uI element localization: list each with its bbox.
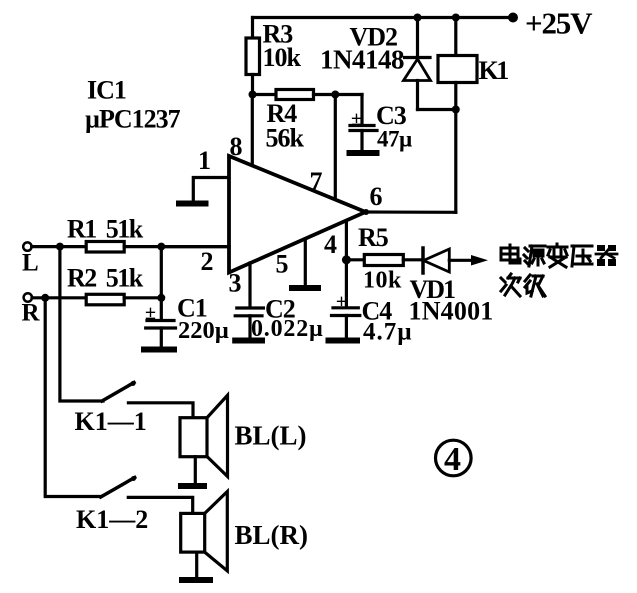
wire VD2 bottom to K1 bottom [418, 108, 456, 111]
svg-text:5: 5 [276, 250, 289, 279]
svg-text:R: R [22, 300, 41, 327]
capacitor C3 [350, 95, 377, 152]
input terminal L [23, 242, 31, 250]
svg-text:IC1: IC1 [87, 76, 126, 105]
ground BL(R) [182, 577, 210, 583]
wire top +25V rail [253, 16, 515, 19]
diode VD1 [423, 248, 478, 273]
node L feed tap [56, 243, 64, 251]
svg-text:R1 51k: R1 51k [67, 215, 144, 244]
switch K1-1 arm [102, 383, 134, 402]
svg-text:±: ± [145, 302, 156, 324]
svg-text:47µ: 47µ [377, 127, 412, 152]
wire pin 5 [304, 239, 307, 285]
svg-text:L: L [22, 250, 39, 277]
svg-text:BL(R): BL(R) [235, 520, 309, 550]
svg-text:µPC1237: µPC1237 [85, 105, 181, 134]
svg-text:BL(L): BL(L) [235, 421, 307, 451]
wire pin 2 [161, 245, 229, 248]
ground C3 [350, 150, 377, 156]
ground BL(L) [181, 483, 204, 489]
wire R feed down [45, 298, 100, 497]
svg-text:1N4001: 1N4001 [409, 297, 494, 326]
resistor R1 [86, 242, 229, 253]
label transformer chinese line2 char ci [501, 274, 520, 296]
capacitor C1 [146, 298, 176, 347]
ground C1 [144, 347, 174, 353]
svg-text:56k: 56k [266, 124, 305, 153]
svg-text:220µ: 220µ [178, 317, 229, 344]
ground C2 [235, 338, 262, 344]
label transformer chinese line1 char yuan [524, 246, 545, 266]
svg-text:10k: 10k [363, 268, 402, 294]
wire R1 node to R2 node [160, 247, 163, 298]
resistor R2 [86, 294, 161, 305]
speaker BL(R) [181, 492, 228, 578]
wire pin 4 [345, 221, 348, 307]
node R1 output [157, 243, 165, 251]
wire arrow to transformer [471, 255, 488, 266]
label transformer chinese line1 char qi [596, 245, 617, 266]
label transformer chinese line1 char ya [572, 246, 592, 266]
label transformer chinese line1 char bian [548, 244, 567, 267]
node R feed tap [41, 294, 49, 302]
svg-text:10k: 10k [263, 43, 302, 72]
speaker BL(L) [180, 395, 228, 483]
node VD2/K1 bottom junction [452, 106, 460, 114]
svg-text:±: ± [351, 108, 362, 130]
svg-text:K1—1: K1—1 [75, 407, 147, 436]
capacitor C2 [235, 308, 263, 338]
svg-text:6: 6 [370, 182, 383, 211]
node R4/pin7 junction [331, 91, 339, 99]
resistor R3 [246, 18, 260, 95]
svg-text:7: 7 [310, 167, 323, 196]
figure number circled 4 [436, 440, 472, 478]
svg-text:K1—2: K1—2 [76, 505, 148, 534]
node K1 top rail junction [452, 14, 460, 22]
resistor R5 [346, 255, 421, 266]
node R2 output [157, 294, 165, 302]
svg-text:3: 3 [229, 269, 242, 298]
resistor R4 [253, 90, 363, 100]
svg-text:4: 4 [444, 441, 461, 478]
capacitor C4 [332, 308, 360, 338]
ground pin 5 [292, 285, 318, 291]
wire pin 3 [248, 263, 251, 307]
svg-text:K1: K1 [479, 56, 509, 85]
wire R input to R2 [32, 296, 86, 299]
wire pin 8 [251, 95, 254, 168]
input terminal R [24, 293, 32, 301]
switch K1-1 fixed contact wire [128, 403, 193, 418]
svg-text:+25V: +25V [525, 6, 593, 41]
ground C4 [329, 338, 358, 344]
label transformer chinese line2 char ji [525, 275, 545, 296]
wire pin 7 [334, 95, 337, 201]
switch K1-2 fixed contact wire [128, 497, 192, 513]
op-amp U1 triangle [229, 156, 366, 273]
svg-text:R2 51k: R2 51k [67, 264, 144, 293]
svg-text:1: 1 [198, 146, 211, 175]
svg-text:1N4148: 1N4148 [320, 45, 404, 75]
node VD2 top rail junction [414, 14, 422, 22]
svg-text:0.022µ: 0.022µ [251, 316, 324, 342]
node R3/R4 junction [249, 91, 257, 99]
relay coil K1 [438, 18, 477, 110]
label transformer chinese line1 char dian [501, 245, 520, 263]
svg-text:8: 8 [230, 132, 243, 161]
wire K1 junction down to pin 6 [454, 110, 457, 213]
ground pin 1 [179, 201, 206, 207]
wire L input to R1 [32, 245, 86, 248]
diode VD2 [404, 18, 431, 110]
wire L feed down [60, 247, 103, 401]
svg-text:±: ± [336, 291, 347, 313]
node +25V terminal [508, 13, 518, 23]
wire pin 1 [193, 178, 229, 202]
node pin 6 apex [363, 209, 369, 215]
svg-text:4: 4 [324, 230, 337, 259]
svg-text:4.7µ: 4.7µ [363, 319, 413, 346]
svg-text:2: 2 [201, 247, 214, 276]
switch K1-2 arm [101, 478, 135, 498]
node pin4/R5 junction [342, 255, 351, 264]
svg-text:R5: R5 [358, 223, 389, 252]
wire pin 6 [366, 210, 456, 214]
